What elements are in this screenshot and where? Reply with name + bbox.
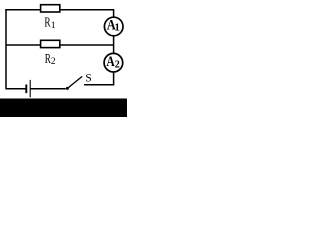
ammeter A1 circle [104, 17, 123, 36]
resistor R1 box [41, 5, 60, 12]
svg-text:2: 2 [115, 59, 120, 70]
resistor R2 box [41, 40, 60, 47]
battery long plate [29, 80, 31, 97]
bottom wire battery to switch [31, 88, 66, 90]
switch blade [68, 76, 82, 87]
ammeter A2 circle [104, 53, 123, 72]
wire top-right down to A1 [113, 9, 115, 17]
middle wire [6, 44, 114, 46]
svg-text:A: A [106, 54, 115, 70]
bottom wire left of battery [6, 88, 26, 90]
top wire [5, 9, 113, 11]
svg-text:1: 1 [115, 23, 120, 34]
switch pivot dot [66, 87, 69, 90]
battery short plate [25, 85, 27, 94]
left wire [5, 9, 7, 89]
wire A2 down to switch contact [84, 72, 114, 85]
svg-text:2: 2 [51, 57, 56, 67]
bottom black bar [0, 99, 127, 118]
svg-text:S: S [85, 72, 91, 84]
wire A1 to A2 [113, 36, 115, 54]
svg-text:1: 1 [51, 20, 56, 31]
